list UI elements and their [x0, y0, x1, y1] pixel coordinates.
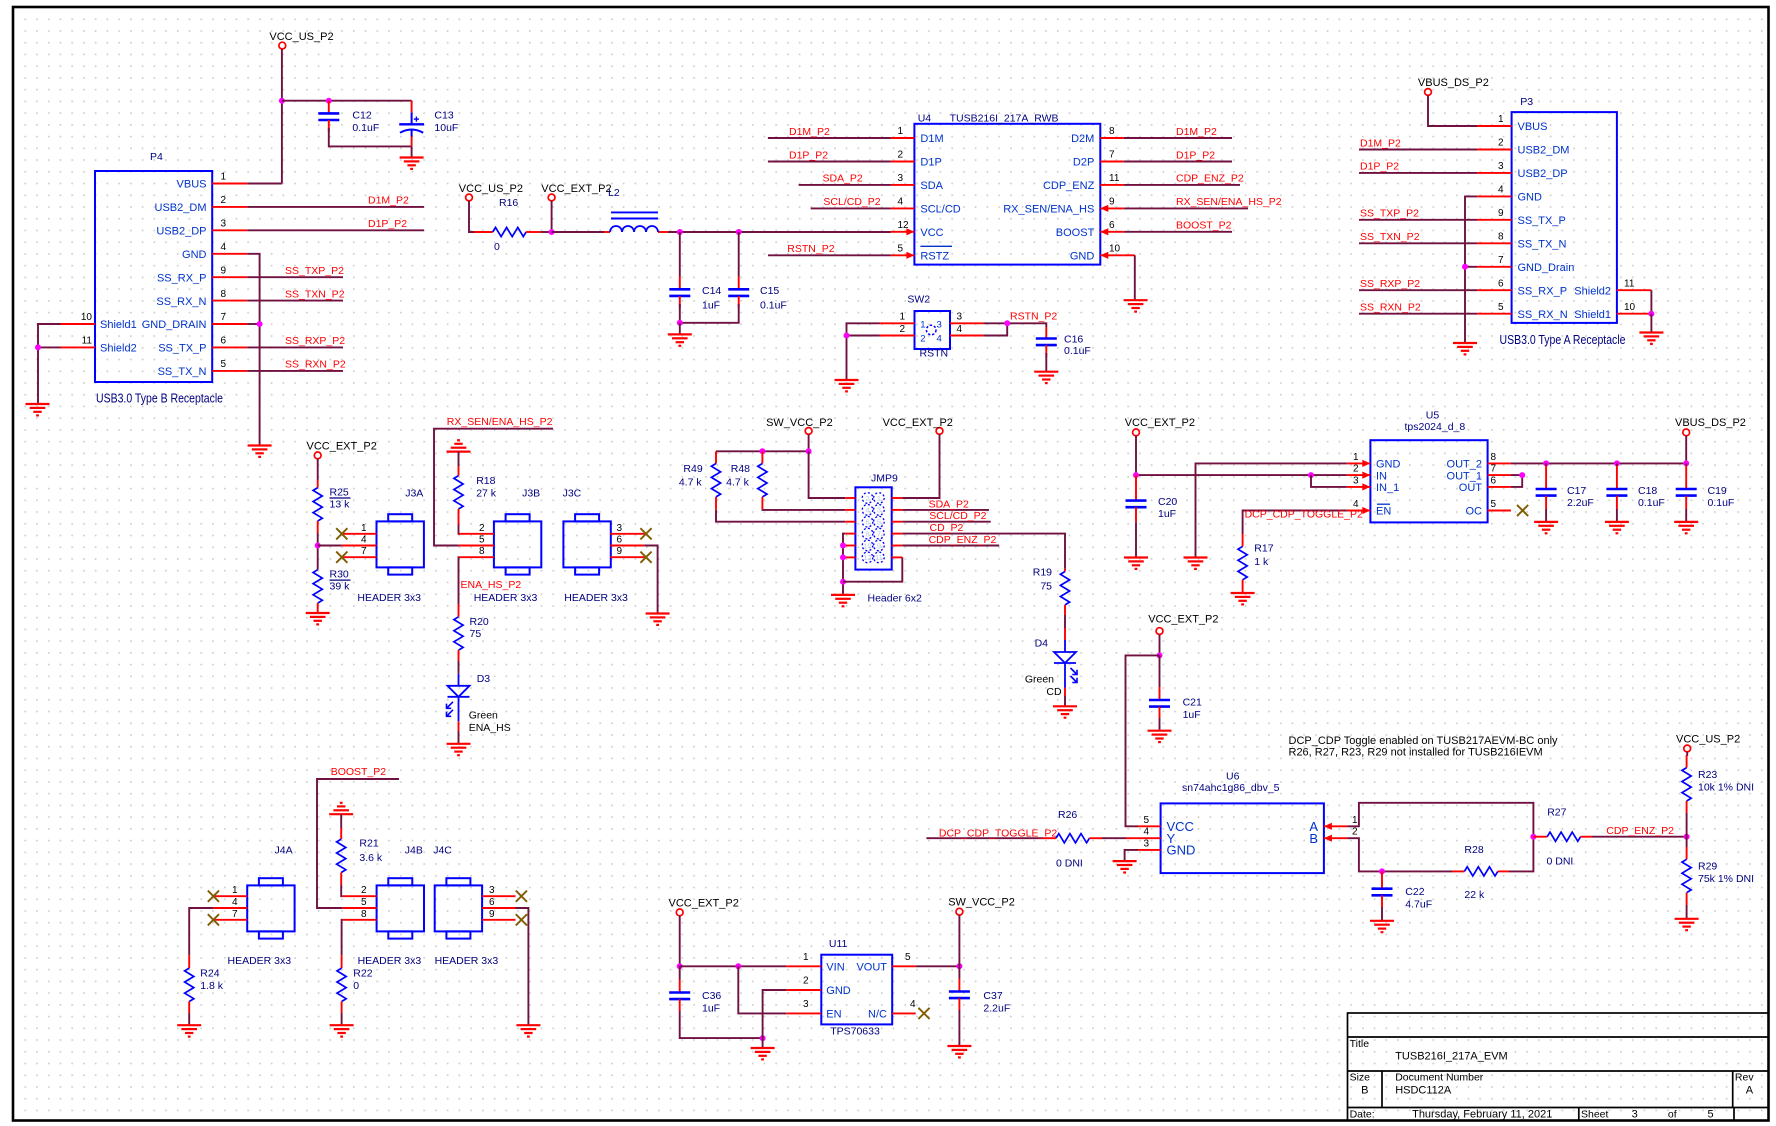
wire CD_P2 to R19: [902, 534, 1065, 569]
net label CDP_ENZ_P2 (R27): [1606, 825, 1674, 837]
wire D1M_P2 (P4): [247, 206, 424, 208]
junction VCC_US/C12 branch: [279, 98, 285, 104]
wire JMP9 row6 loop: [843, 557, 902, 581]
resistor R26: [1043, 809, 1102, 869]
net label SS_TXP_P2 (P4): [285, 265, 344, 277]
svg-text:R29: R29: [1698, 861, 1717, 873]
wire R49/R48 top rail: [716, 450, 809, 452]
net label SDA_P2 (JMP9): [929, 498, 969, 510]
svg-text:U4: U4: [918, 113, 932, 125]
svg-text:SW_VCC_P2: SW_VCC_P2: [766, 417, 833, 429]
inductor L2 (ferrite bead): [604, 187, 668, 232]
svg-text:7: 7: [1498, 255, 1504, 266]
svg-text:C22: C22: [1405, 886, 1424, 898]
svg-text:J4C: J4C: [433, 845, 452, 857]
U5 right pin stub 7: [1488, 474, 1511, 476]
svg-text:1uF: 1uF: [702, 300, 720, 312]
svg-text:2: 2: [920, 334, 925, 345]
svg-text:10: 10: [863, 541, 871, 550]
U11 pin 2 stub: [786, 989, 821, 991]
wire VBUS_DS to P3.1: [1428, 95, 1477, 126]
wire to U6 VCC: [1126, 655, 1160, 826]
net label DCP_CDP_TOGGLE_P2 (R26): [939, 828, 1057, 840]
U4 pin 4 stub: [891, 207, 915, 209]
svg-text:ENA_HS_P2: ENA_HS_P2: [461, 579, 522, 591]
U6 pin 2 stub: [1324, 835, 1348, 842]
P3 pin names: [1518, 121, 1612, 321]
P4 pin 9 stub: [212, 276, 247, 278]
junction JMP9 gnd loop: [840, 579, 846, 585]
wire J3C.6 to ground: [644, 546, 657, 614]
svg-text:8: 8: [1498, 232, 1504, 243]
svg-text:SS_RX_P: SS_RX_P: [157, 272, 207, 284]
svg-text:VBUS_DS_P2: VBUS_DS_P2: [1418, 77, 1489, 89]
wire VCC_US_P2 vertical: [281, 49, 283, 184]
wire SW2.1: [847, 323, 880, 335]
svg-text:VCC_US_P2: VCC_US_P2: [269, 31, 333, 43]
svg-text:C12: C12: [352, 110, 371, 122]
svg-text:CDP_ENZ_P2: CDP_ENZ_P2: [1606, 825, 1674, 837]
wire U6 GND: [1125, 850, 1138, 861]
ground C22: [1370, 921, 1394, 932]
svg-text:11: 11: [1624, 278, 1635, 289]
svg-text:HEADER 3x3: HEADER 3x3: [435, 955, 499, 967]
junction shields: [35, 344, 41, 350]
svg-text:VCC_US_P2: VCC_US_P2: [1676, 734, 1740, 746]
svg-text:11: 11: [875, 553, 883, 562]
svg-text:4: 4: [1498, 185, 1504, 196]
resistor R24: [185, 955, 224, 1013]
ground SW2: [835, 380, 859, 391]
junction SW2 ground: [844, 333, 850, 339]
capacitor C36: [669, 966, 721, 1014]
svg-text:3: 3: [221, 219, 227, 230]
U5 left pin stub 4: [1347, 507, 1371, 514]
wire VCC_EXT C21 drop: [1159, 635, 1161, 656]
svg-text:R21: R21: [359, 837, 378, 849]
capacitor C14: [669, 232, 721, 312]
ground C13: [400, 158, 424, 169]
U4 pin 8 stub: [1100, 137, 1124, 139]
svg-text:R27: R27: [1547, 806, 1566, 818]
U4 pin 10 stub: [1100, 252, 1124, 259]
svg-text:D1P: D1P: [920, 157, 941, 169]
svg-text:J3C: J3C: [563, 487, 582, 499]
svg-text:10: 10: [1109, 244, 1121, 255]
svg-text:2: 2: [1352, 827, 1358, 838]
P3 pin 11 stub: [1617, 289, 1652, 291]
svg-text:SS_RXP_P2: SS_RXP_P2: [1360, 278, 1420, 290]
wire D1P_P2 (U4.2): [768, 161, 891, 163]
D3 cathode stub: [458, 721, 460, 731]
P3 pin 3 stub: [1477, 172, 1512, 174]
junction GND_Drain P3: [1462, 264, 1468, 270]
svg-text:VBUS_DS_P2: VBUS_DS_P2: [1675, 417, 1746, 429]
power port VCC_EXT_P2 (R25): [307, 441, 377, 459]
wire C36 bottom: [680, 1011, 763, 1038]
svg-text:C14: C14: [702, 285, 721, 297]
svg-text:Date:: Date:: [1350, 1108, 1375, 1120]
net label RSTN_P2 (U4.5): [787, 243, 834, 255]
svg-text:OUT: OUT: [1459, 482, 1483, 494]
svg-text:R28: R28: [1464, 844, 1483, 856]
svg-text:SDA_P2: SDA_P2: [929, 498, 969, 510]
wire R24 to ground: [188, 1013, 190, 1025]
svg-text:9: 9: [1109, 197, 1115, 208]
wire SW_VCC drop (U11): [958, 915, 960, 966]
svg-text:D2P: D2P: [1073, 157, 1094, 169]
svg-text:7: 7: [221, 312, 227, 323]
capacitor C37: [949, 966, 1010, 1014]
no-connect J4C.3: [516, 891, 527, 902]
svg-text:TUSB216I_217A_RWB: TUSB216I_217A_RWB: [950, 113, 1059, 125]
ground P3 shields: [1639, 333, 1663, 344]
capacitor C12: [318, 101, 379, 134]
wire VCC_US to R16: [469, 201, 474, 232]
wire CDP_ENZ_P2 (JMP9): [902, 545, 999, 547]
power port VCC_EXT_P2 (U5): [1125, 417, 1195, 436]
svg-text:VCC_EXT_P2: VCC_EXT_P2: [1148, 614, 1218, 626]
svg-text:3: 3: [1632, 1108, 1638, 1120]
svg-text:R49: R49: [683, 463, 702, 475]
wire JMP9 left ground chain: [843, 534, 845, 595]
svg-text:2: 2: [361, 885, 367, 896]
U11 pin names: [826, 962, 887, 1021]
svg-text:HEADER 3x3: HEADER 3x3: [474, 592, 538, 604]
svg-text:3: 3: [1143, 838, 1149, 849]
svg-text:VCC_EXT_P2: VCC_EXT_P2: [883, 417, 953, 429]
svg-text:VOUT: VOUT: [856, 962, 887, 974]
svg-text:5: 5: [905, 952, 911, 963]
capacitor C22: [1372, 871, 1433, 910]
svg-text:B: B: [1309, 831, 1318, 846]
power port VCC_EXT_P2 (JMP9): [883, 417, 953, 435]
svg-text:5: 5: [1708, 1108, 1714, 1120]
wire U5 IN: [1136, 474, 1347, 476]
junction C19: [1683, 460, 1689, 466]
svg-text:D4: D4: [1035, 637, 1049, 649]
P4 pin 2 stub: [212, 206, 247, 208]
wire VCC_EXT to IN: [1135, 436, 1137, 475]
wire CDP_ENZ_P2 (U4.11): [1124, 184, 1240, 186]
svg-text:J3A: J3A: [405, 487, 423, 499]
svg-text:6: 6: [221, 336, 227, 347]
wire SS_RXN_P2 (P3): [1359, 313, 1477, 315]
net label SS_RXN_P2 (P4): [285, 359, 346, 371]
ground P4 GND: [248, 446, 272, 457]
JMP9 left stub row5: [845, 545, 855, 547]
wire C16 to ground: [1045, 353, 1047, 372]
JMP9 right stub row2: [892, 509, 903, 511]
P3 pin 9 stub: [1477, 219, 1512, 221]
J3A pin stub 0: [342, 533, 377, 535]
svg-text:8: 8: [479, 546, 485, 557]
svg-text:GND_DRAIN: GND_DRAIN: [142, 319, 207, 331]
SW2 pin 4 stub: [950, 335, 983, 337]
svg-text:IN_1: IN_1: [1376, 482, 1399, 494]
IC U11 TPS70633: [821, 938, 892, 1037]
svg-text:6: 6: [617, 535, 623, 546]
ground JMP9: [831, 595, 855, 606]
ground R30: [306, 613, 330, 624]
svg-text:USB2_DP: USB2_DP: [1518, 168, 1568, 180]
svg-text:GND: GND: [1167, 843, 1196, 858]
svg-text:D1M_P2: D1M_P2: [1360, 137, 1401, 149]
svg-text:sn74ahc1g86_dbv_5: sn74ahc1g86_dbv_5: [1182, 782, 1280, 794]
U5 left pin stub 3: [1347, 483, 1371, 490]
svg-text:L2: L2: [608, 187, 620, 199]
svg-text:5: 5: [479, 535, 485, 546]
no-connect J4A.7: [208, 914, 219, 925]
power port VBUS_DS_P2 (P3): [1418, 77, 1489, 96]
wire C17 to ground: [1545, 509, 1547, 522]
svg-text:U6: U6: [1226, 770, 1240, 782]
svg-text:SS_RX_N: SS_RX_N: [1518, 309, 1568, 321]
svg-text:VBUS: VBUS: [1518, 121, 1548, 133]
J4C pin stub 0: [482, 895, 515, 897]
capacitor C18: [1606, 463, 1664, 509]
wire SW2.4: [983, 323, 1007, 335]
svg-text:J3B: J3B: [522, 487, 540, 499]
svg-text:8: 8: [221, 289, 227, 300]
connector J3A HEADER 3x3: [377, 514, 424, 574]
svg-text:9: 9: [489, 909, 495, 920]
svg-text:3: 3: [489, 885, 495, 896]
wire C21 to ground: [1159, 718, 1161, 731]
D4 labels: [1025, 637, 1062, 698]
resistor R29: [1682, 837, 1754, 905]
J4A pin numbers: [232, 885, 238, 920]
wire D3 to ground: [458, 731, 460, 744]
wire D1P_P2 (P3): [1359, 172, 1477, 174]
svg-text:BOOST_P2: BOOST_P2: [331, 766, 387, 778]
svg-text:DCP_CDP_TOGGLE_P2: DCP_CDP_TOGGLE_P2: [939, 828, 1057, 840]
P4 pin 8 stub: [212, 300, 247, 302]
P3 pin 1 stub: [1477, 125, 1512, 127]
svg-text:Thursday, February 11, 2021: Thursday, February 11, 2021: [1412, 1108, 1552, 1120]
connector J4B HEADER 3x3: [377, 878, 424, 938]
svg-text:R26: R26: [1058, 809, 1077, 821]
junction JMP9 row6: [840, 554, 846, 560]
svg-text:4.7 k: 4.7 k: [726, 476, 750, 488]
JMP9 left stub row1: [845, 497, 855, 499]
ground shields: [26, 404, 50, 415]
svg-text:SCL/CD_P2: SCL/CD_P2: [823, 196, 880, 208]
ground R17: [1231, 593, 1255, 604]
svg-text:1: 1: [898, 126, 904, 137]
svg-text:GND: GND: [1518, 192, 1543, 204]
U4 pin 7 stub: [1100, 161, 1124, 163]
svg-text:5: 5: [1498, 302, 1504, 313]
junction OUT_1/OUT: [1519, 472, 1525, 478]
wire SS_TXN_P2 (P4): [247, 300, 343, 302]
svg-text:75: 75: [470, 628, 482, 640]
JMP9 left stub row4: [845, 533, 855, 535]
wire D1P_P2 (U4.7): [1124, 161, 1232, 163]
svg-text:10: 10: [1624, 302, 1636, 313]
svg-text:7: 7: [1491, 464, 1497, 475]
wire Shield2 to ground: [38, 347, 61, 404]
svg-text:3: 3: [1353, 476, 1359, 487]
svg-text:R25: R25: [330, 486, 349, 498]
P3 pin 5 stub: [1477, 313, 1512, 315]
svg-text:R24: R24: [200, 968, 219, 980]
svg-text:R30: R30: [330, 568, 349, 580]
U4 pin 12 stub: [891, 228, 915, 235]
JMP9 right stub row3: [892, 521, 903, 523]
J4A labels: [228, 845, 293, 968]
resistor R19: [1033, 566, 1070, 615]
U5 left pin stub 2: [1347, 472, 1371, 479]
svg-text:VIN: VIN: [826, 962, 844, 974]
wire DCP_CDP_TOGGLE_P2 to R26: [926, 837, 1043, 839]
no-connect J4A.1: [208, 891, 219, 902]
wire P4 GND chain: [247, 254, 259, 446]
svg-text:8: 8: [865, 529, 869, 538]
svg-text:2: 2: [865, 494, 869, 503]
P3 pin 8 stub: [1477, 242, 1512, 244]
ground C18: [1605, 522, 1629, 533]
svg-text:3: 3: [617, 523, 623, 534]
svg-text:1: 1: [1353, 452, 1359, 463]
svg-text:1: 1: [221, 172, 227, 183]
svg-text:4: 4: [957, 324, 963, 335]
svg-text:4: 4: [361, 535, 367, 546]
svg-text:1: 1: [899, 311, 905, 322]
svg-text:VCC: VCC: [920, 227, 943, 239]
svg-text:OUT_2: OUT_2: [1447, 459, 1482, 471]
JMP9 pin circles: [862, 493, 884, 563]
svg-text:EN: EN: [1376, 506, 1391, 518]
no-connect U11 N/C: [918, 1008, 929, 1019]
D4 cathode stub: [1064, 688, 1066, 697]
svg-text:RX_SEN/ENA_HS: RX_SEN/ENA_HS: [1003, 204, 1094, 216]
svg-text:7: 7: [232, 909, 238, 920]
svg-text:SS_TX_N: SS_TX_N: [158, 366, 207, 378]
svg-text:13 k: 13 k: [330, 498, 351, 510]
svg-text:22 k: 22 k: [1464, 889, 1485, 901]
wire VCC_EXT to VIN rail: [679, 916, 681, 967]
wire JMP9 row1 to VCC_EXT: [902, 434, 939, 498]
svg-text:5: 5: [361, 897, 367, 908]
svg-text:P4: P4: [150, 151, 163, 163]
P3 pin 10 stub: [1617, 313, 1652, 315]
ground R24: [177, 1025, 201, 1036]
J3C labels: [563, 487, 628, 604]
svg-text:JMP9: JMP9: [871, 473, 898, 485]
net label SS_TXP_P2 (P3): [1360, 208, 1419, 220]
J4C pin numbers: [489, 885, 495, 920]
connector J4C HEADER 3x3: [435, 878, 482, 938]
svg-text:0: 0: [494, 241, 500, 253]
svg-text:8: 8: [1109, 126, 1115, 137]
P4 pin 10 stub: [61, 323, 96, 325]
J3C pin numbers: [617, 523, 623, 557]
wire VIN rail: [680, 965, 787, 967]
svg-text:Green: Green: [469, 710, 498, 722]
U11 pin numbers: [803, 952, 916, 1010]
svg-text:CDP_ENZ_P2: CDP_ENZ_P2: [1176, 173, 1244, 185]
svg-text:2: 2: [221, 195, 227, 206]
svg-text:D1P_P2: D1P_P2: [789, 149, 828, 161]
P4 pin numbers: [81, 172, 227, 370]
svg-text:HEADER 3x3: HEADER 3x3: [228, 955, 292, 967]
svg-text:R48: R48: [731, 463, 750, 475]
P3 pin 6 stub: [1477, 289, 1512, 291]
svg-text:RSTN_P2: RSTN_P2: [1010, 311, 1057, 323]
J4B pin numbers: [361, 885, 367, 920]
junction R23/R29: [1684, 834, 1690, 840]
junction C20 tap: [1133, 472, 1139, 478]
svg-text:12: 12: [863, 553, 871, 562]
svg-text:1: 1: [1498, 114, 1504, 125]
power port SW_VCC_P2 (JMP9): [766, 417, 833, 435]
svg-text:11: 11: [1109, 173, 1120, 184]
wire SCL/CD_P2 (JMP9): [902, 521, 990, 523]
svg-text:DCP_CDP Toggle enabled on TUSB: DCP_CDP Toggle enabled on TUSB217AEVM-BC…: [1289, 735, 1559, 747]
svg-text:1.8 k: 1.8 k: [200, 980, 224, 992]
junction C17: [1543, 460, 1549, 466]
svg-text:5: 5: [1143, 815, 1149, 826]
svg-text:GND: GND: [1070, 251, 1095, 263]
wire to JMP9.row1: [809, 451, 846, 498]
svg-text:OC: OC: [1466, 506, 1483, 518]
ground U6: [1113, 861, 1137, 872]
ground R22: [330, 1025, 354, 1036]
ground (inverted) R21: [329, 803, 353, 814]
wire SW_VCC drop: [808, 434, 810, 451]
power port VCC_EXT_P2 (R16): [541, 183, 611, 201]
resistor R25: [313, 480, 350, 533]
svg-text:3: 3: [877, 506, 881, 515]
net label SDA_P2 (U4.3): [823, 173, 863, 185]
capacitor C13 (polarized): [399, 101, 458, 147]
svg-text:5: 5: [221, 359, 227, 370]
svg-text:R22: R22: [353, 968, 372, 980]
wire R18 to J3B.2: [459, 525, 461, 534]
ground J3C: [646, 614, 670, 625]
resistor R21: [337, 828, 383, 885]
svg-text:8: 8: [1491, 452, 1497, 463]
junction VCC_EXT/R16: [549, 229, 555, 235]
wire SS_RXP_P2 (P4): [247, 346, 343, 348]
wire gnd to R18: [458, 452, 460, 466]
junction JMP9 row5: [840, 543, 846, 549]
wire CDP_ENZ_P2 (R27): [1592, 836, 1687, 838]
net label CD_P2: [930, 522, 964, 534]
U4 pin 6 stub: [1100, 228, 1124, 235]
svg-text:SS_TXN_P2: SS_TXN_P2: [1360, 231, 1420, 243]
svg-text:J4B: J4B: [405, 845, 423, 857]
svg-text:39 k: 39 k: [330, 580, 351, 592]
svg-text:USB3.0 Type B Receptacle: USB3.0 Type B Receptacle: [96, 391, 223, 405]
svg-text:3: 3: [937, 320, 942, 331]
svg-text:USB2_DP: USB2_DP: [156, 226, 206, 238]
junction J3A pin4: [315, 543, 321, 549]
net label D1P_P2 (P4): [368, 218, 407, 230]
svg-text:VBUS: VBUS: [177, 179, 207, 191]
svg-text:9: 9: [1498, 208, 1504, 219]
wire R22 to ground: [341, 1013, 343, 1025]
net label SS_TXN_P2 (P3): [1360, 231, 1420, 243]
svg-text:1uF: 1uF: [702, 1003, 720, 1015]
svg-text:Shield2: Shield2: [100, 343, 137, 355]
U6 pin names: [1167, 819, 1319, 858]
title block text: [1350, 1038, 1755, 1120]
connector J3C HEADER 3x3: [563, 514, 610, 574]
svg-text:D1M_P2: D1M_P2: [789, 126, 830, 138]
svg-text:3: 3: [1498, 161, 1504, 172]
